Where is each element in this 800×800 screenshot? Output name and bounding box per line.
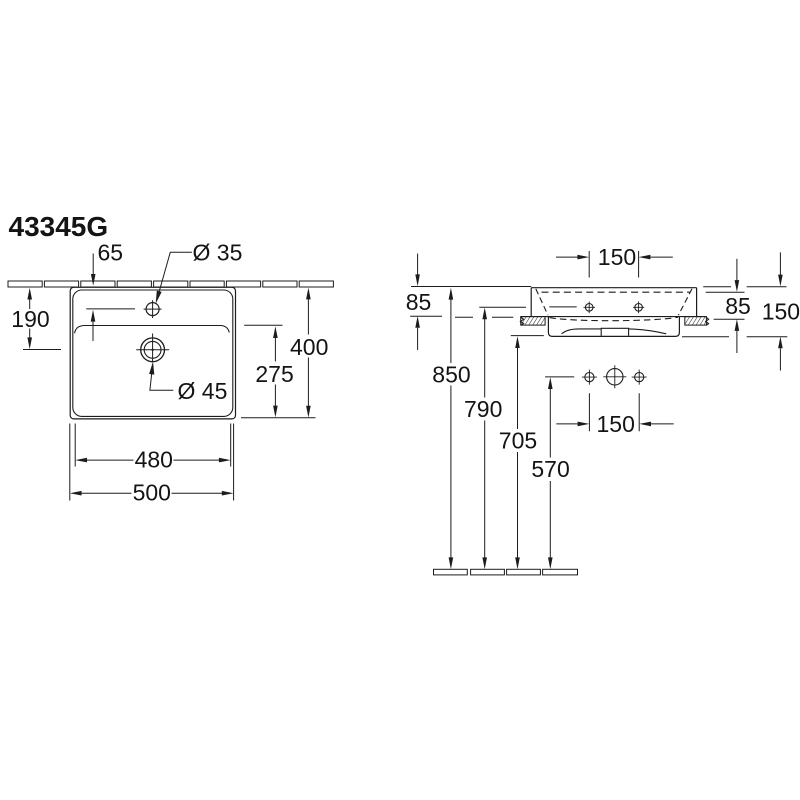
drain center dot: [151, 349, 153, 351]
extension line basin bottom right: [682, 336, 787, 338]
basin right outer edge: [696, 288, 698, 317]
dimension 190 line and arrows: [27, 288, 32, 300]
interior edge line left: [549, 306, 576, 308]
extension lines below fixing holes: [589, 393, 639, 431]
dimension 570 line and arrows: [548, 377, 553, 389]
drain hole outer circle: [141, 338, 165, 362]
svg-text:150: 150: [598, 244, 636, 270]
underside right foot curve: [629, 329, 667, 334]
svg-text:190: 190: [11, 306, 49, 332]
fixing hole right: [635, 373, 644, 382]
drain hole inner circle: [144, 341, 161, 358]
hidden bowl wall left (dashed): [536, 289, 548, 315]
worktop hatch left: [521, 317, 545, 326]
overflow hole left (elevation): [585, 304, 593, 312]
extension line at fixing hole level: [545, 376, 574, 378]
extension line rim top right: [703, 286, 786, 288]
worktop line across: [521, 316, 707, 318]
extension line at basin bottom right: [241, 417, 316, 419]
dimension 150 right up arrow: [778, 337, 783, 349]
svg-text:43345G: 43345G: [9, 211, 109, 242]
floor tile row (elevation): [434, 569, 578, 575]
extension lines from overflow holes up to 150 dim: [589, 251, 638, 278]
wall / worktop top line (elevation): [411, 286, 531, 288]
drain crosshair: [136, 334, 169, 362]
dimension 85 right down arrow: [736, 259, 738, 281]
worktop reference line right: [714, 318, 745, 320]
dimension 150 lower: lines and arrows: [556, 423, 577, 425]
worktop hatch left end break mark: [520, 317, 523, 325]
worktop hatch right end break mark: [706, 317, 709, 325]
extension line at shelf level right: [244, 324, 282, 326]
dimension 500 line and arrows: [70, 491, 82, 496]
svg-text:65: 65: [98, 240, 124, 266]
svg-text:570: 570: [531, 456, 569, 482]
dimension 65 lower up arrow with line: [91, 310, 96, 322]
tap hole crosshair: [144, 300, 162, 318]
dimension 850 line and arrows: [449, 288, 454, 300]
extension line at overflow hole level left: [479, 306, 526, 308]
worktop hidden line left (dashed): [455, 316, 513, 318]
leader arrow to drain: [149, 362, 154, 375]
dimension 705 line and arrows: [515, 336, 520, 348]
dimension 275 line and arrows: [273, 326, 278, 338]
dimension 150 right down arrow: [779, 252, 781, 275]
wall tile row (plan view): [8, 281, 333, 287]
drain trap cover rectangle: [601, 328, 628, 336]
leader line for tap hole label: [158, 252, 192, 297]
hidden bowl bottom curve (dashed): [550, 317, 679, 321]
basin outer outline (plan): [70, 287, 235, 419]
worktop hatch right: [685, 317, 707, 326]
svg-text:500: 500: [133, 480, 171, 506]
worktop reference line left thin: [410, 315, 442, 317]
svg-text:480: 480: [135, 447, 173, 473]
svg-text:85: 85: [725, 293, 751, 319]
extension line at drain center level: [23, 349, 61, 351]
svg-text:850: 850: [432, 361, 470, 387]
dimension 150 top: lines and arrows: [556, 256, 578, 258]
leader line for drain label: [150, 367, 173, 390]
leader arrow to tap hole: [156, 291, 162, 304]
extension line at basin bottom left: [511, 335, 544, 337]
basin inner rim (plan): [73, 290, 233, 416]
tap hole circle: [146, 303, 159, 316]
extension lines for 480: [75, 424, 231, 467]
hidden rim line (dashed): [542, 291, 691, 293]
basin top edge (elevation): [531, 287, 696, 289]
tap mounting hole center: [607, 369, 623, 385]
svg-text:85: 85: [406, 289, 432, 315]
extension line at tap hole center level: [86, 308, 135, 310]
dimension 85 right up arrow: [735, 319, 740, 331]
svg-text:150: 150: [597, 411, 635, 437]
underside left foot curve: [562, 329, 602, 334]
basin left outer edge: [530, 288, 532, 317]
fixing hole left: [585, 373, 594, 382]
svg-text:Ø 35: Ø 35: [193, 240, 243, 266]
hidden bowl wall right (dashed): [678, 289, 692, 315]
dimension 65 upper line with down arrow: [92, 254, 94, 275]
extension lines for 500: [70, 424, 234, 501]
svg-text:Ø 45: Ø 45: [178, 378, 228, 404]
dimension 790 line and arrows: [482, 308, 487, 320]
basin shelf edge line (plan): [75, 326, 230, 334]
dimension 85 left down arrow: [417, 254, 419, 275]
svg-text:150: 150: [762, 299, 800, 325]
svg-text:790: 790: [464, 396, 502, 422]
svg-text:275: 275: [255, 361, 293, 387]
dimension 85 left up arrow: [415, 316, 420, 328]
extension line rim lower right: [706, 291, 745, 293]
basin underside body: [548, 317, 679, 337]
dimension 480 line and arrows: [75, 458, 87, 463]
overflow hole right (elevation): [635, 304, 643, 312]
svg-text:705: 705: [499, 428, 537, 454]
dimension 400 line and arrows: [306, 288, 311, 300]
svg-text:400: 400: [290, 334, 328, 360]
